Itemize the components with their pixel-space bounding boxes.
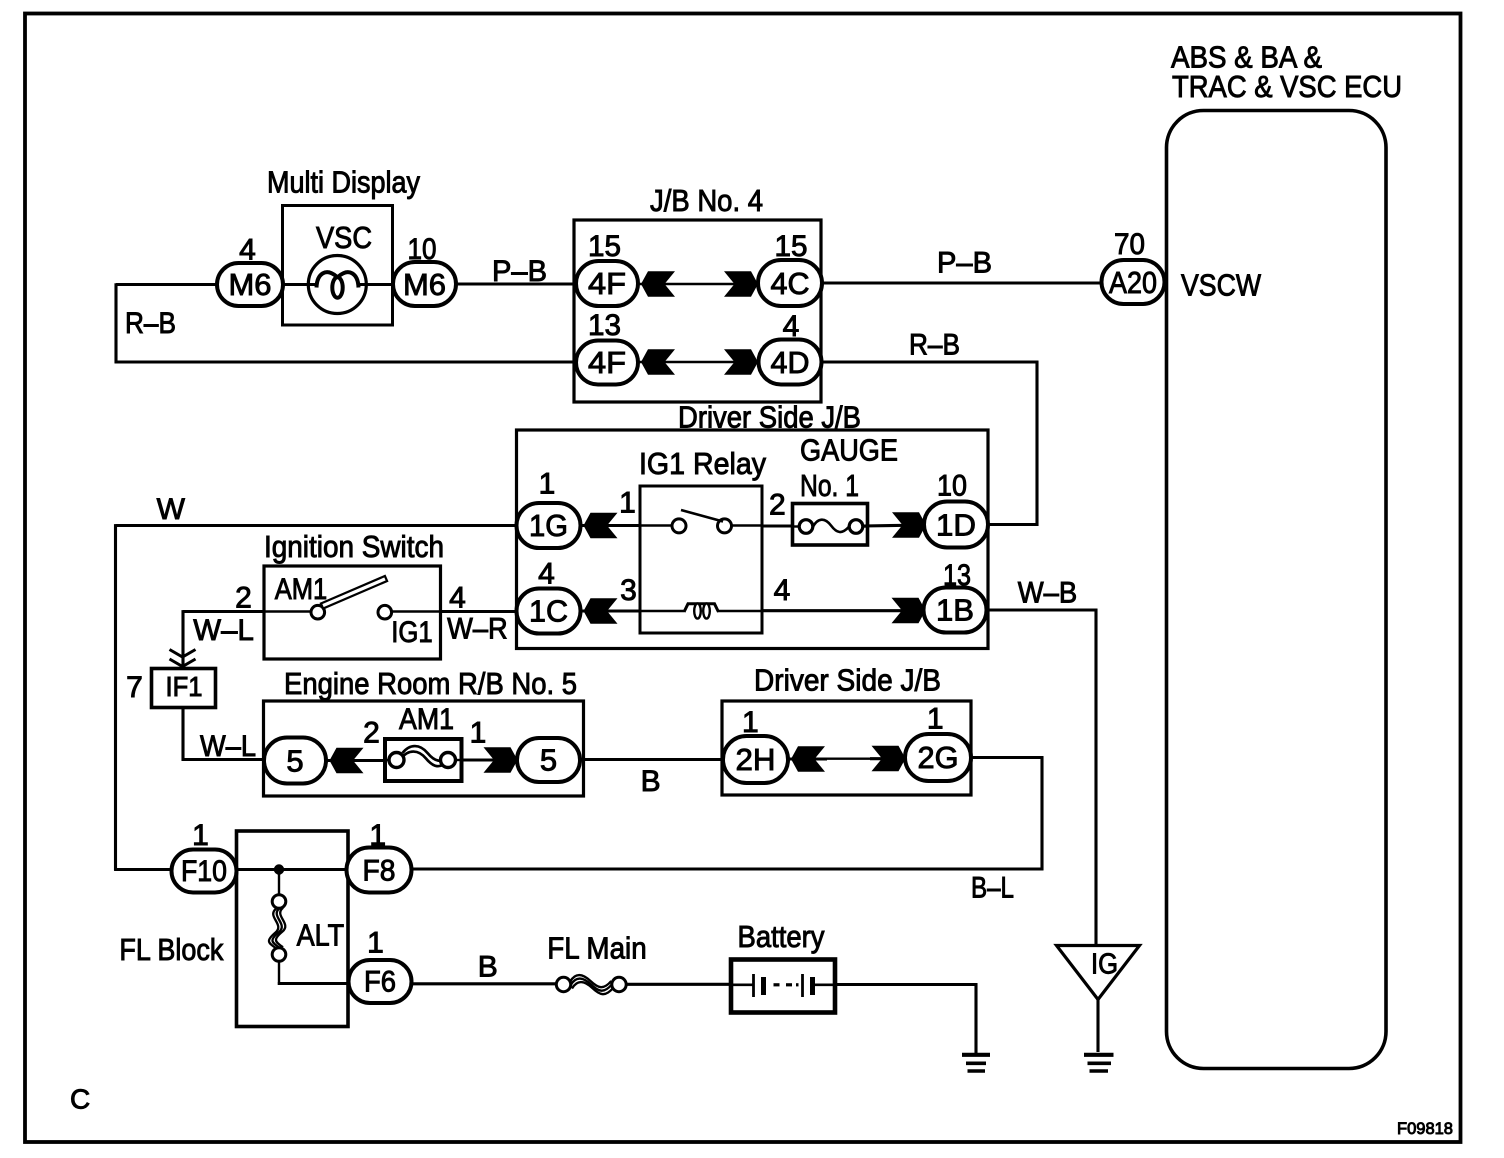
svg-text:10: 10 <box>408 233 437 266</box>
svg-text:W–B: W–B <box>1018 577 1077 610</box>
svg-text:Ignition Switch: Ignition Switch <box>264 529 444 564</box>
svg-text:AM1: AM1 <box>275 573 328 606</box>
svg-text:A20: A20 <box>1109 265 1157 300</box>
svg-text:1D: 1D <box>936 508 976 543</box>
svg-text:B: B <box>641 765 661 798</box>
svg-text:4: 4 <box>538 558 555 591</box>
svg-text:4C: 4C <box>771 266 810 301</box>
svg-text:J/B No. 4: J/B No. 4 <box>650 183 763 218</box>
svg-text:3: 3 <box>620 574 637 607</box>
svg-text:10: 10 <box>937 470 967 503</box>
svg-text:R–B: R–B <box>125 307 176 340</box>
svg-text:5: 5 <box>540 743 557 778</box>
svg-text:Multi Display: Multi Display <box>267 165 420 200</box>
svg-text:M6: M6 <box>403 267 446 302</box>
svg-text:1C: 1C <box>529 594 568 629</box>
svg-text:4D: 4D <box>771 345 810 380</box>
svg-text:GAUGE: GAUGE <box>800 433 898 468</box>
svg-text:4F: 4F <box>588 266 626 301</box>
svg-text:15: 15 <box>588 230 621 263</box>
svg-text:Engine Room R/B No. 5: Engine Room R/B No. 5 <box>284 666 577 701</box>
svg-text:IG: IG <box>1091 949 1118 981</box>
svg-text:M6: M6 <box>229 267 272 302</box>
svg-text:Driver Side J/B: Driver Side J/B <box>754 663 941 698</box>
svg-text:No. 1: No. 1 <box>800 468 859 503</box>
svg-text:4: 4 <box>239 234 256 267</box>
svg-text:VSCW: VSCW <box>1181 268 1262 303</box>
svg-text:2: 2 <box>769 489 786 522</box>
svg-text:AM1: AM1 <box>399 703 454 736</box>
svg-text:1G: 1G <box>529 508 568 543</box>
svg-text:4: 4 <box>783 310 800 343</box>
svg-text:W–R: W–R <box>447 613 508 646</box>
svg-text:1: 1 <box>619 487 636 520</box>
svg-text:W–L: W–L <box>193 614 254 647</box>
svg-text:TRAC & VSC ECU: TRAC & VSC ECU <box>1172 69 1402 104</box>
svg-text:1: 1 <box>539 468 556 501</box>
svg-text:1B: 1B <box>936 593 974 628</box>
svg-text:1: 1 <box>470 717 487 750</box>
svg-text:1: 1 <box>742 706 759 739</box>
svg-text:IF1: IF1 <box>166 671 203 702</box>
svg-text:2G: 2G <box>918 740 959 775</box>
svg-text:IG1 Relay: IG1 Relay <box>639 446 766 481</box>
svg-text:IG1: IG1 <box>391 616 433 649</box>
svg-text:4F: 4F <box>588 345 626 380</box>
svg-text:13: 13 <box>588 309 621 342</box>
svg-text:4: 4 <box>449 582 466 615</box>
svg-text:2H: 2H <box>736 742 776 777</box>
svg-text:F6: F6 <box>364 966 396 999</box>
svg-text:R–B: R–B <box>909 329 960 362</box>
svg-text:F8: F8 <box>363 855 396 888</box>
svg-text:FL Block: FL Block <box>119 932 223 967</box>
svg-text:2: 2 <box>235 582 252 615</box>
svg-text:15: 15 <box>775 230 808 263</box>
svg-text:2: 2 <box>363 717 380 750</box>
svg-text:1: 1 <box>369 819 386 852</box>
svg-text:Driver Side J/B: Driver Side J/B <box>678 400 861 435</box>
svg-text:B: B <box>478 951 498 984</box>
svg-text:70: 70 <box>1114 228 1145 261</box>
svg-text:Battery: Battery <box>738 919 825 954</box>
svg-text:ALT: ALT <box>297 918 345 953</box>
svg-text:1: 1 <box>927 703 944 736</box>
svg-text:1: 1 <box>192 819 209 852</box>
svg-text:W: W <box>157 493 186 526</box>
svg-text:VSC: VSC <box>316 220 372 255</box>
svg-text:W–L: W–L <box>200 730 256 763</box>
svg-text:C: C <box>70 1084 90 1115</box>
svg-text:P–B: P–B <box>492 255 547 288</box>
svg-text:FL Main: FL Main <box>547 931 646 966</box>
svg-text:13: 13 <box>943 559 971 592</box>
svg-text:4: 4 <box>774 574 791 607</box>
svg-text:7: 7 <box>126 671 143 704</box>
svg-text:B–L: B–L <box>971 872 1014 905</box>
svg-text:1: 1 <box>367 927 384 960</box>
svg-text:P–B: P–B <box>937 247 992 280</box>
svg-text:F09818: F09818 <box>1397 1119 1453 1138</box>
svg-text:5: 5 <box>286 744 303 779</box>
svg-text:F10: F10 <box>181 855 227 888</box>
